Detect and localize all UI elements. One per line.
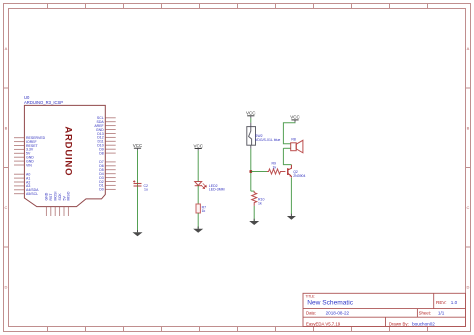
svg-text:B: B [5, 125, 8, 130]
VCC symbol branch3 left [246, 111, 256, 116]
wire speaker bottom stub [283, 147, 290, 149]
svg-text:MISO: MISO [67, 191, 71, 200]
resistor R7 box [196, 204, 200, 213]
wire branch2 vcc to led [197, 151, 199, 182]
svg-text:bouchon02: bouchon02 [412, 321, 435, 326]
arduino U0 reference designator labels [24, 95, 63, 105]
capacitor C2 labels [144, 184, 149, 192]
resistor R9 zigzag [267, 169, 285, 174]
wire led to resistor R7 [197, 186, 199, 204]
svg-text:Date:: Date: [306, 311, 316, 316]
capacitor C2 [133, 180, 142, 186]
svg-text:1.0: 1.0 [451, 300, 458, 305]
wire sensor to junction [250, 149, 252, 191]
svg-text:C: C [467, 205, 470, 210]
LED2 diode symbol [195, 182, 202, 186]
svg-text:1u: 1u [144, 188, 148, 192]
svg-text:MOSI: MOSI [54, 192, 58, 201]
vibration sensor SW2 body [247, 127, 256, 146]
svg-text:VDG/S-01L blue: VDG/S-01L blue [255, 138, 280, 142]
svg-text:C: C [5, 205, 8, 210]
arduino left pin names [26, 136, 46, 196]
svg-text:2018-08-22: 2018-08-22 [326, 311, 350, 316]
VCC1 stem [137, 148, 139, 150]
svg-text:D: D [467, 284, 470, 289]
svg-text:A: A [5, 46, 8, 51]
VCC symbol branch2 [193, 143, 203, 148]
svg-text:New Schematic: New Schematic [307, 299, 354, 306]
arduino right pins group2 [105, 162, 115, 190]
bottom band ticks [48, 327, 428, 332]
wire speaker top stub to vcc4 [283, 122, 295, 144]
arduino U0 body outline [24, 105, 105, 206]
speaker R8 [291, 140, 303, 153]
wire collector up to speaker [283, 148, 291, 164]
svg-text:SCK: SCK [58, 193, 62, 201]
wire vcc3 to sensor SW2 [250, 118, 252, 123]
title block [303, 293, 466, 326]
VCC2 stem [197, 149, 199, 151]
side band letters [5, 46, 470, 289]
title block text labels [306, 295, 447, 327]
svg-text:TITLE:: TITLE: [306, 295, 316, 299]
svg-text:U0: U0 [24, 95, 30, 100]
svg-text:2N3904: 2N3904 [293, 174, 305, 178]
svg-text:R8: R8 [291, 138, 296, 142]
svg-text:EasyEDA V5.7.19: EasyEDA V5.7.19 [306, 321, 341, 326]
arduino right pins group1 [105, 118, 115, 153]
svg-text:B: B [467, 125, 470, 130]
svg-text:A: A [467, 46, 470, 51]
arduino right pin names [94, 116, 104, 192]
svg-text:ARDUINO: ARDUINO [62, 126, 73, 176]
svg-text:Drawn By:: Drawn By: [389, 321, 409, 326]
resistor R10 zigzag [252, 191, 257, 206]
svg-text:ARDUINO_R3_ICSP: ARDUINO_R3_ICSP [24, 100, 63, 105]
svg-text:LED-3MM: LED-3MM [209, 187, 225, 191]
arduino bottom pins [46, 207, 68, 216]
VCC3 stem [250, 116, 252, 118]
wire R7 to ground [197, 213, 199, 229]
LED2 labels [209, 184, 225, 191]
wire R10 to ground [253, 206, 255, 221]
ground branch1 [133, 230, 143, 236]
wire junction to R9 [251, 171, 267, 173]
svg-text:1k: 1k [273, 165, 277, 169]
arduino left pins group2 [14, 174, 24, 194]
VCC4 stem [294, 120, 296, 123]
svg-text:Sheet:: Sheet: [419, 311, 431, 316]
svg-text:RST: RST [49, 193, 53, 201]
top band ticks [48, 4, 428, 9]
svg-text:VCC: VCC [193, 143, 203, 148]
svg-text:VIN: VIN [26, 163, 32, 167]
right band ticks [466, 88, 471, 247]
svg-text:VCC: VCC [133, 143, 143, 148]
sensor SW2 bottom pin [250, 145, 252, 149]
wire branch1 vcc to gnd [137, 150, 139, 232]
svg-text:A5/SCL: A5/SCL [26, 192, 38, 196]
svg-text:1k: 1k [202, 209, 206, 213]
transistor Q2 emitter arrow [289, 175, 291, 177]
resistor R10 labels [258, 198, 264, 206]
VCC symbol branch3 right [290, 115, 300, 120]
svg-text:GND: GND [45, 192, 49, 200]
VCC symbol branch1 [133, 143, 143, 148]
sensor SW2 top pin [250, 123, 252, 127]
sensor SW2 labels [255, 134, 280, 142]
transistor Q2 [288, 165, 292, 178]
svg-text:D8: D8 [99, 151, 104, 155]
transistor Q2 labels [293, 170, 305, 178]
wire emitter to ground [290, 178, 292, 214]
ground R10 [249, 219, 259, 225]
svg-text:5V: 5V [62, 196, 66, 201]
resistor R7 labels [202, 205, 207, 213]
left band ticks [4, 88, 9, 247]
ground Q2 emitter [287, 214, 296, 220]
svg-text:VCC: VCC [246, 111, 256, 116]
svg-text:1/1: 1/1 [438, 311, 445, 316]
arduino left pins group1 [14, 138, 24, 165]
resistor R9 labels [272, 162, 277, 170]
svg-text:VCC: VCC [290, 115, 300, 120]
svg-text:D: D [5, 284, 8, 289]
svg-text:1k: 1k [258, 202, 262, 206]
arduino bottom pin names [45, 191, 71, 200]
svg-text:D0: D0 [99, 188, 104, 192]
svg-text:REV:: REV: [436, 300, 447, 305]
ground branch2 [193, 227, 203, 233]
junction node [250, 170, 253, 173]
LED2 emission arrows [201, 183, 206, 188]
wire jog to R10 [251, 190, 254, 192]
title block values [307, 299, 457, 326]
